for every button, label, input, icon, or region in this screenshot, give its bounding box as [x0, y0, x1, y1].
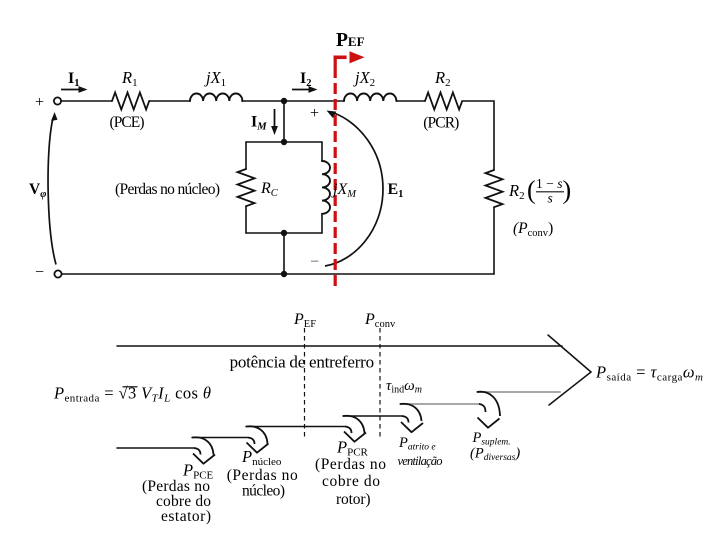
magnetizing branch box top wire [246, 141, 322, 143]
svg-text:ventilação: ventilação [398, 454, 443, 468]
wire right branch upper [321, 142, 323, 161]
svg-text:(PCR): (PCR) [423, 115, 459, 132]
node junction box bottom [281, 230, 287, 236]
terminal minus (bottom-left) [54, 270, 61, 277]
dashed line P_conv [379, 328, 381, 440]
svg-text:núcleo): núcleo) [242, 483, 285, 500]
loss arrow P_nucleo [246, 426, 269, 452]
wire right branch lower [321, 214, 323, 233]
wire left branch upper [245, 142, 247, 169]
svg-text:−: − [310, 254, 319, 271]
wire top rail left [61, 100, 112, 102]
flow arrow top edge [117, 345, 562, 347]
svg-text:(Perdas no núcleo): (Perdas no núcleo) [115, 181, 220, 198]
bottom rail wire [62, 273, 494, 275]
wire left branch lower [245, 206, 247, 233]
current arrow I2 [292, 86, 318, 93]
resistor R2(1-s)/s [486, 170, 503, 207]
inductor jXM [322, 161, 330, 214]
flow bottom segment 5 gray [400, 403, 479, 405]
label (Perdas no nucleo) flow [227, 467, 298, 500]
node junction top [281, 98, 287, 104]
wire jX1 to jX2 [242, 100, 344, 102]
svg-text:(Perdas no: (Perdas no [227, 467, 298, 484]
node junction bottom rail [281, 271, 287, 277]
terminal plus (top-left) [54, 97, 61, 104]
node junction box top [281, 139, 287, 145]
svg-text:(: ( [527, 176, 536, 205]
svg-text:potência de entreferro: potência de entreferro [230, 353, 375, 372]
current arrow I1 [61, 86, 88, 93]
wire jX2 to R2 [397, 100, 426, 102]
flow bottom segment 3 [246, 426, 345, 428]
label (Perdas no cobre do rotor) [315, 456, 386, 508]
svg-text:): ) [563, 176, 572, 205]
label P_atrito e ventilacao [398, 435, 443, 468]
label R2 (1-s)/s [508, 176, 571, 206]
flow arrowhead upper diagonal [548, 335, 591, 372]
red elbow with arrow [334, 51, 365, 67]
label (Perdas no cobre do estator) [142, 478, 211, 525]
svg-text:−: − [35, 264, 44, 281]
inductor jX2 [344, 94, 396, 102]
radical overbar of sqrt3 [123, 386, 138, 388]
loss arrow P_PCR [343, 416, 366, 442]
resistor R1 [112, 93, 149, 110]
flow bottom segment 2 [192, 437, 248, 439]
wire R2 to right corner, down to load resistor [463, 101, 494, 170]
magnetizing branch box bottom wire [246, 232, 322, 234]
resistor RC [238, 169, 255, 206]
svg-text:PEF: PEF [336, 30, 365, 51]
loss arrow P_PCE [192, 437, 215, 463]
label P_suplem [470, 430, 520, 463]
inductor jX1 [190, 94, 242, 102]
voltage arrow E1 [325, 111, 383, 267]
svg-text:s: s [548, 191, 553, 206]
wire junction down into magnetizing branch [283, 101, 285, 142]
current arrow IM [271, 109, 278, 135]
wire load resistor down to bottom rail [493, 207, 495, 274]
wire R1 to jX1 [149, 100, 190, 102]
flow bottom segment 6 gray [477, 391, 560, 393]
wire magnetizing branch to bottom rail [283, 233, 285, 274]
svg-text:+: + [310, 105, 319, 122]
svg-text:+: + [35, 94, 44, 111]
svg-text:1 − s: 1 − s [536, 176, 563, 191]
svg-text:cobre do: cobre do [322, 473, 380, 490]
flow arrowhead lower diagonal [549, 372, 591, 405]
flow bottom segment 1 [117, 447, 194, 449]
loss arrow P_suplem [477, 392, 500, 428]
svg-text:(PCE): (PCE) [110, 114, 145, 131]
svg-text:(Perdas no: (Perdas no [315, 456, 386, 473]
svg-text:estator): estator) [161, 508, 211, 525]
voltage arrow V_phi [48, 112, 57, 265]
svg-text:rotor): rotor) [336, 491, 371, 508]
loss arrow P_atrito [400, 404, 423, 432]
red dashed boundary line P_EF [334, 67, 337, 288]
dashed line P_EF [304, 328, 306, 440]
flow bottom segment 4 [343, 415, 402, 417]
resistor R2 [425, 93, 462, 110]
